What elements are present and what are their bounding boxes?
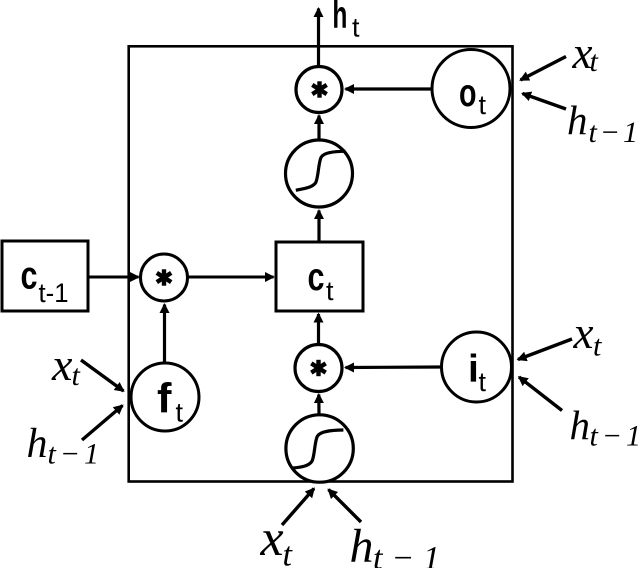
arrow: x_t to i_t	[518, 339, 572, 360]
svg-text:h: h	[332, 0, 347, 37]
multiply node M2 (forget gate product)	[141, 254, 188, 301]
svg-text:t: t	[479, 90, 487, 120]
tanh activation circle T1	[286, 140, 353, 207]
arrow: x_t to T2	[282, 489, 314, 526]
svg-text:t−1: t−1	[373, 540, 440, 568]
wire: c_t to T1	[317, 211, 320, 242]
svg-text:t: t	[590, 45, 599, 78]
sigmoid curve in T1	[296, 151, 346, 190]
wire: o_t to M1	[346, 87, 432, 90]
svg-text:h: h	[570, 402, 591, 448]
svg-text:t: t	[283, 537, 294, 568]
svg-text:t−1: t−1	[589, 116, 639, 149]
gate circle o_t	[432, 50, 510, 128]
wire: T1 to M1	[317, 116, 320, 140]
svg-text:t: t	[593, 330, 602, 363]
svg-text:t−1: t−1	[590, 420, 640, 453]
wire: M2 to c_t	[188, 276, 274, 279]
arrow: h_t-1 to T2	[329, 490, 362, 523]
svg-text:t: t	[352, 13, 360, 43]
svg-text:h: h	[567, 97, 588, 143]
svg-text:h: h	[27, 421, 48, 467]
tanh activation circle T2	[286, 415, 353, 482]
svg-text:x: x	[260, 510, 284, 567]
asterisk in M3	[311, 360, 325, 376]
multiply node M3 (input gate product)	[295, 345, 342, 392]
svg-text:t−1: t−1	[48, 438, 100, 471]
gate circle f_t	[131, 363, 199, 431]
wire: f_t to M2	[163, 305, 166, 363]
svg-text:c: c	[21, 255, 38, 298]
asterisk in M1	[312, 81, 326, 97]
svg-text:c: c	[308, 256, 325, 299]
svg-text:t: t	[479, 367, 487, 397]
gate circle i_t	[442, 332, 512, 402]
wire: M3 to c_t	[317, 314, 320, 344]
arrow: h_t-1 to f_t	[82, 406, 123, 441]
svg-text:o: o	[459, 72, 477, 115]
wire: T2 to M3	[317, 395, 320, 415]
svg-text:h: h	[350, 520, 374, 568]
state rect c_t	[276, 242, 363, 311]
arrow: h_t-1 to o_t	[523, 94, 567, 110]
svg-text:t: t	[326, 276, 334, 306]
asterisk in M2	[157, 269, 171, 285]
multiply node M1 (output gate product)	[296, 67, 342, 113]
state rect c_t-1	[2, 241, 88, 311]
LSTM cell boundary box	[129, 46, 513, 481]
sigmoid curve in T2	[293, 430, 343, 468]
svg-text:i: i	[468, 348, 479, 391]
svg-text:f: f	[157, 375, 173, 422]
wire: i_t to M3	[346, 365, 442, 369]
arrow: x_t to o_t	[521, 57, 567, 81]
arrow: h_t-1 to i_t	[519, 377, 562, 411]
svg-text:t-1: t-1	[39, 278, 69, 308]
wire: output arrow to h_t	[317, 9, 320, 67]
svg-text:t: t	[176, 398, 184, 428]
svg-text:t: t	[72, 359, 81, 392]
arrow: x_t to f_t	[81, 360, 124, 391]
wire: c_t-1 to M2	[89, 276, 139, 279]
svg-text:x: x	[573, 308, 594, 358]
svg-text:x: x	[51, 339, 73, 390]
